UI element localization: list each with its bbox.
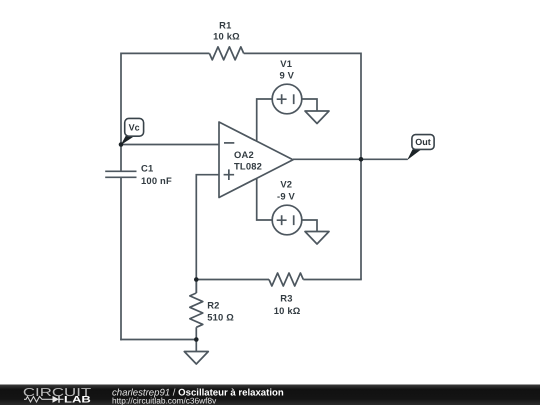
op-amp V+ supply pin to V1 [257, 99, 273, 141]
svg-text:Out: Out [415, 137, 431, 147]
junction: R2 bottom / ground node [194, 337, 199, 342]
svg-text:TL082: TL082 [234, 160, 262, 171]
wire: top rail from left rail to right rail [121, 52, 361, 54]
svg-text:9 V: 9 V [279, 70, 294, 81]
footer black bar [0, 385, 540, 405]
svg-text:-9 V: -9 V [277, 191, 296, 202]
svg-text:R3: R3 [280, 292, 292, 303]
svg-text:100 nF: 100 nF [141, 175, 172, 186]
wire: bottom wire to R2 ground node [120, 339, 196, 341]
svg-text:Vc: Vc [129, 123, 140, 133]
wire: non-inverting input down to R2/R3 node [196, 175, 219, 293]
svg-text:V2: V2 [280, 179, 292, 190]
wire: stem to bottom ground [195, 340, 197, 352]
V1 plus terminal mark [277, 94, 287, 104]
wire: right rail vertical [360, 53, 362, 280]
ground symbol at V1 [305, 111, 329, 124]
wire: V1 negative terminal to ground [302, 99, 317, 111]
wire: R2 top lead [195, 280, 197, 294]
svg-text:510 Ω: 510 Ω [207, 311, 234, 322]
V1 minus terminal mark [293, 94, 295, 104]
junction: R2/R3/non-inverting node [194, 277, 199, 282]
svg-text:10 kΩ: 10 kΩ [274, 305, 301, 316]
op-amp OA2 triangle body [219, 122, 293, 198]
op-amp inverting input minus sign [224, 142, 234, 144]
CircuitLab logo resistor-diode underline [24, 397, 64, 403]
svg-text:10 kΩ: 10 kΩ [213, 31, 240, 42]
V2 plus terminal mark [277, 215, 287, 225]
capacitor C1 [105, 171, 136, 177]
V2 minus terminal mark [293, 215, 295, 225]
wire: inverting input from Vc node [121, 144, 219, 146]
wire: V2 negative terminal to ground [302, 220, 317, 232]
voltage source V1 circle [272, 84, 302, 114]
svg-text:V1: V1 [280, 58, 292, 69]
svg-text:LAB: LAB [64, 395, 91, 405]
svg-text:R2: R2 [207, 300, 219, 311]
resistor R2 [190, 293, 203, 327]
node flag Vc box [125, 118, 144, 136]
resistor R1 [209, 47, 243, 60]
node flag Vc tail [121, 136, 135, 146]
svg-text:R1: R1 [219, 19, 231, 30]
svg-text:C1: C1 [141, 163, 153, 174]
voltage source V2 circle [272, 205, 302, 235]
svg-text:http://circuitlab.com/c36wf8v: http://circuitlab.com/c36wf8v [112, 396, 217, 405]
junction: Vc node [119, 142, 124, 147]
ground symbol at V2 [305, 232, 329, 245]
wire: R2 bottom lead [195, 327, 197, 339]
node flag Out box [412, 135, 434, 150]
wire: left rail (Vc net) vertical [120, 53, 122, 341]
resistor R3 [269, 273, 303, 286]
ground symbol at R2 bottom [184, 352, 208, 365]
svg-text:OA2: OA2 [234, 149, 254, 160]
junction: output / right rail node [359, 157, 364, 162]
op-amp V- supply pin to V2 [257, 178, 273, 220]
node flag Out tail [407, 149, 421, 160]
wire: R3 bottom feedback segment [196, 279, 361, 281]
op-amp non-inverting input plus sign [224, 169, 235, 180]
wire: op-amp output to Out flag [293, 158, 408, 160]
